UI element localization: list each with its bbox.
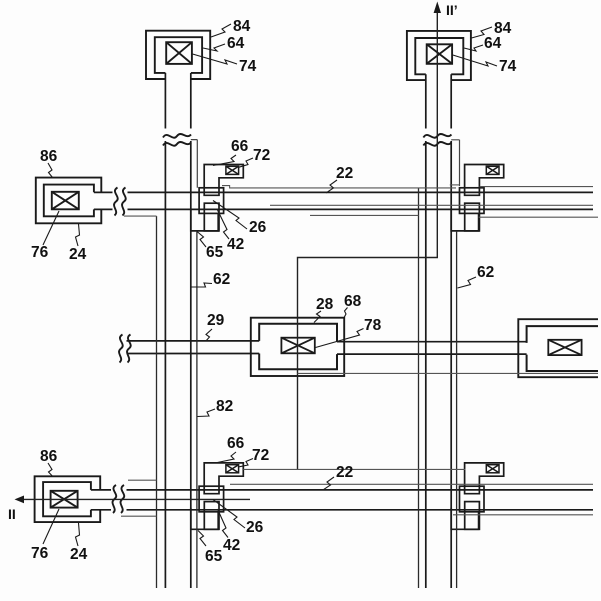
svg-text:86: 86 [40, 148, 58, 165]
svg-text:74: 74 [499, 58, 517, 75]
cell contact 78 (center X-box) [281, 338, 314, 354]
cell contact (right edge X-box) [548, 340, 581, 355]
leader line 42 bottom [218, 509, 229, 538]
svg-text:II: II [8, 506, 16, 522]
leader line 86 bottom [48, 463, 53, 476]
svg-text:28: 28 [316, 296, 334, 313]
leader line 26 bottom [213, 500, 245, 529]
leader line 74 [193, 54, 238, 64]
svg-text:24: 24 [69, 246, 87, 263]
leader line 76 bottom [43, 509, 59, 544]
break symbol (right bit line) [423, 134, 451, 146]
cell plate 28 (center outer) [251, 318, 344, 376]
bit line contact 74 (top-right X-box) [427, 44, 452, 64]
leader line 72 bottom [239, 459, 253, 467]
interconnect line 62 upper (right column) [451, 140, 459, 186]
word line pad plate (bottom-left inner) [43, 482, 91, 516]
svg-text:42: 42 [223, 537, 240, 554]
svg-text:74: 74 [239, 58, 257, 75]
storage line middle row right segment [337, 342, 527, 354]
thin layer lines (horizontal) [230, 187, 598, 515]
break symbol (top word line) [114, 188, 126, 216]
section line II-II' [298, 10, 438, 469]
svg-text:76: 76 [31, 545, 49, 562]
leader line 66 bottom [215, 452, 236, 463]
leader line 24 bottom [76, 523, 80, 546]
leader line 22 top [326, 180, 337, 193]
leader line 24 top [76, 224, 80, 246]
leader line 82 [198, 409, 216, 417]
leader line 26 top [213, 201, 247, 230]
svg-text:66: 66 [227, 435, 245, 452]
svg-text:65: 65 [206, 244, 224, 261]
interconnect hooks (right column) [222, 185, 598, 217]
svg-text:64: 64 [484, 35, 502, 52]
bit line (left column) [165, 73, 190, 588]
break symbol (left bit line) [163, 134, 191, 146]
svg-text:72: 72 [253, 147, 270, 164]
break symbol (bottom word line) [113, 485, 125, 513]
svg-text:78: 78 [364, 317, 382, 334]
leader line 62 left [192, 283, 213, 287]
break symbol (middle row 29) [119, 335, 131, 363]
storage node 66 with contact 72 (bottom-right assembly) [451, 463, 504, 529]
svg-text:66: 66 [231, 138, 249, 155]
leader line 84 [211, 24, 231, 37]
leader line 64 right [464, 45, 483, 51]
word line 22 (top row) [94, 192, 593, 209]
leader line 68 [344, 308, 348, 319]
word line contact 76 (top-left X-box) [52, 192, 79, 210]
bit line pad 84 (top-left outer) [146, 31, 210, 79]
leader line 66 top [213, 155, 236, 166]
svg-text:86: 86 [40, 448, 58, 465]
svg-text:68: 68 [344, 293, 362, 310]
svg-text:26: 26 [246, 519, 264, 536]
bit line pad plate 64 (top-left inner) [155, 37, 202, 73]
svg-text:24: 24 [70, 546, 88, 563]
svg-text:65: 65 [205, 548, 223, 565]
bit line pad 84 (top-right outer) [407, 31, 471, 80]
leader line 64 [203, 44, 225, 51]
word line pad 86 (top-left outer) [36, 178, 102, 224]
storage line 29 (middle row) [127, 341, 260, 354]
leader line 84 right [472, 27, 493, 38]
storage node 66 with contact 72 (bottom-left assembly) [191, 463, 244, 529]
leader line 22 bottom [323, 477, 334, 490]
svg-text:22: 22 [336, 165, 353, 182]
leader line 76 top [43, 211, 59, 245]
svg-text:84: 84 [233, 18, 251, 35]
svg-text:62: 62 [477, 264, 494, 281]
cell plate (right edge inner) [527, 326, 598, 371]
section arrow II [15, 496, 25, 504]
word line pad plate (top-left inner) [44, 185, 94, 217]
bit line contact 74 (top-left X-box) [166, 42, 192, 64]
svg-text:II’: II’ [446, 2, 458, 18]
leader line 29 [206, 329, 212, 341]
leader line 28 [314, 311, 321, 323]
svg-text:82: 82 [216, 398, 233, 415]
leader line 86 top [48, 163, 53, 178]
leader line 62 right [458, 277, 477, 288]
svg-text:29: 29 [207, 312, 225, 329]
interconnect line 62/82 (left column vertical) [157, 216, 197, 588]
bit line (right column) [426, 74, 451, 588]
storage node 66 with contact 72 (top-right assembly) [451, 165, 504, 231]
leader line 65 bottom [198, 531, 206, 547]
section line at bottom word line [22, 498, 250, 500]
storage node 66 with contact 72 and gate structures 26/42/65 (top-left assembly) [191, 165, 244, 231]
svg-text:76: 76 [31, 244, 49, 261]
interconnect line 62/82 (right column vertical) [419, 188, 457, 588]
svg-text:42: 42 [227, 236, 244, 253]
bit line pad plate 64 (top-right inner) [415, 38, 463, 74]
svg-text:26: 26 [249, 219, 267, 236]
svg-text:62: 62 [213, 271, 230, 288]
word line 22 (bottom row) [91, 490, 593, 510]
leader line 42 top [218, 210, 230, 239]
section line arrow II' [434, 2, 441, 14]
interconnect hooks (left column) [121, 216, 157, 516]
leader line 78 [316, 329, 364, 348]
svg-text:22: 22 [336, 464, 353, 481]
leader line 65 top [197, 232, 206, 248]
word line pad 86 (bottom-left outer) [35, 476, 101, 522]
svg-text:64: 64 [227, 35, 245, 52]
interconnect line 62 upper (left column) [191, 140, 198, 188]
cell plate 68 (center inner) [259, 324, 337, 370]
leader line 74 right [453, 55, 497, 66]
svg-text:72: 72 [252, 447, 269, 464]
cell plate (right edge outer) [518, 319, 598, 377]
leader line 72 top [239, 158, 253, 167]
word line contact 76 (bottom-left X-box) [51, 491, 78, 508]
